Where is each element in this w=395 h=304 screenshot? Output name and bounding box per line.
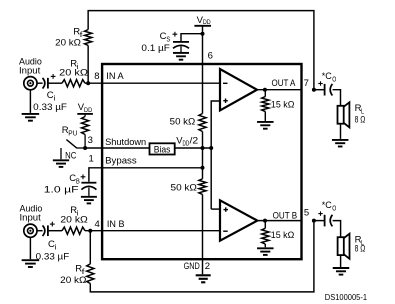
svg-text:1: 1	[89, 153, 94, 164]
speaker R_L (A)	[338, 102, 350, 127]
svg-text:15 kΩ: 15 kΩ	[271, 230, 295, 241]
label R_f (B)	[75, 264, 86, 276]
svg-text:50 kΩ: 50 kΩ	[170, 116, 196, 127]
pin 1 label	[89, 153, 94, 164]
wire op-amp A output	[257, 89, 302, 91]
svg-text:3: 3	[88, 135, 93, 146]
capacitor C_O (B) plates	[325, 215, 333, 227]
label R_L (A)	[355, 103, 364, 115]
capacitor C_i (B) plates	[43, 225, 48, 236]
label R_f (A)	[73, 26, 84, 38]
ground for speaker B	[333, 268, 350, 275]
wire R_f A to input node	[87, 45, 89, 83]
label 0.33 uF (A)	[33, 102, 67, 113]
junction OUT A / feedback	[312, 88, 316, 92]
resistor R_f (B)	[87, 264, 94, 284]
label R_L (B)	[355, 234, 364, 246]
capacitor C_S plates	[173, 42, 189, 52]
op-amp A	[220, 69, 257, 110]
label Audio Input B	[20, 204, 43, 224]
wire speaker B to ground	[340, 255, 342, 267]
wire C_i B to R_i B	[48, 230, 62, 232]
label V_DD/2	[176, 135, 198, 147]
svg-text:20 kΩ: 20 kΩ	[55, 37, 81, 48]
wire IN B node to R_f B	[89, 231, 91, 264]
svg-text:DD: DD	[183, 139, 190, 148]
label Bypass	[105, 156, 137, 167]
svg-text:7: 7	[304, 78, 309, 89]
svg-text:Input: Input	[20, 213, 42, 224]
wire OUT A to 15k A	[264, 90, 266, 97]
pin 5 label	[304, 208, 309, 219]
label OUT A	[272, 78, 296, 89]
wire +input column down to op-amp B	[210, 148, 212, 209]
IC package outline	[102, 64, 301, 259]
wire op-amp A noninverting input	[211, 101, 220, 148]
svg-text:NC: NC	[65, 150, 76, 161]
svg-text:IN A: IN A	[106, 71, 124, 82]
svg-text:IN B: IN B	[107, 219, 125, 230]
node V_DD (supply)	[194, 15, 211, 26]
label C_i (A)	[47, 90, 56, 102]
pin 6 label	[208, 51, 213, 62]
label R_i (B)	[70, 205, 79, 217]
wire V_DD rail down pin 6 to GND pin 2	[202, 26, 204, 274]
label OUT B	[273, 211, 298, 222]
ground for speaker A	[332, 140, 349, 147]
wire feedback B bottom	[90, 221, 314, 292]
wire feedback A top	[88, 11, 314, 90]
svg-text:20 kΩ: 20 kΩ	[60, 275, 86, 286]
capacitor C_i B polarity +	[50, 222, 55, 227]
capacitor C_O A polarity +	[318, 81, 322, 85]
ground for shutdown switch	[53, 160, 69, 167]
capacitor C_i (A) plates	[43, 78, 48, 89]
svg-text:5: 5	[304, 208, 309, 219]
ground for jack A	[22, 90, 40, 121]
wire jack A to C_i	[37, 82, 43, 84]
wire pin 4 to op-amp B inverting input	[102, 230, 220, 232]
label 20 kOhm R_i B	[60, 215, 87, 226]
label 15 kOhm A	[271, 100, 295, 111]
resistor R_PU	[82, 114, 89, 148]
ground for jack B	[22, 237, 40, 267]
svg-text:/2: /2	[190, 135, 199, 146]
capacitor C_O (A) plates	[325, 84, 333, 96]
switch to ground (NC)	[61, 140, 85, 160]
svg-text:OUT A: OUT A	[272, 78, 296, 89]
label R_PU	[62, 125, 78, 137]
svg-text:0.33 µF: 0.33 µF	[33, 102, 67, 113]
wire pin 1 bypass	[89, 168, 203, 182]
wire OUT B to 15k B	[264, 221, 266, 229]
svg-text:PU: PU	[68, 129, 77, 138]
svg-text:O: O	[332, 203, 336, 212]
svg-text:0.1 µF: 0.1 µF	[141, 43, 170, 54]
resistor 15k (A)	[262, 97, 269, 112]
label 8 Ohm (A)	[355, 115, 366, 126]
svg-text:OUT B: OUT B	[273, 211, 298, 222]
junction IN A node	[86, 81, 90, 85]
ground for C_S	[173, 53, 189, 60]
label 15 kOhm B	[271, 230, 295, 241]
capacitor C_S polarity +	[173, 32, 178, 37]
svg-text:8: 8	[94, 71, 99, 82]
svg-text:4: 4	[95, 219, 100, 230]
wire op-amp B output	[257, 220, 301, 222]
label *C_O (A)	[322, 71, 337, 83]
junction shutdown node	[83, 146, 87, 150]
junction op-amp A output / 15k	[263, 88, 267, 92]
wire OUT B to C_O B	[314, 220, 324, 222]
pin 2 label	[205, 261, 210, 272]
label DS100005-1	[325, 293, 368, 302]
wire R_i A to pin 8	[85, 82, 102, 84]
svg-text:Shutdown: Shutdown	[105, 137, 146, 148]
resistor 50k (lower)	[199, 179, 206, 195]
svg-text:DD: DD	[84, 107, 92, 114]
label R_i (A)	[70, 58, 79, 70]
wire speaker A to ground	[340, 124, 342, 139]
label GND	[184, 261, 200, 272]
resistor R_i (B)	[62, 227, 85, 234]
junction IN B node	[88, 229, 92, 233]
svg-text:*C: *C	[322, 71, 332, 82]
label 20 kOhm R_f A	[55, 37, 81, 48]
wire C_O A to speaker A	[333, 90, 341, 106]
audio jack A	[24, 77, 37, 90]
svg-text:20 kΩ: 20 kΩ	[60, 215, 87, 226]
wire bias node to +input column	[175, 147, 211, 149]
svg-text:*C: *C	[322, 200, 332, 211]
resistor 50k (upper)	[199, 114, 206, 132]
wire OUT A to C_O A	[314, 89, 324, 91]
ground for 15k A	[257, 122, 274, 129]
svg-text:1.0 µF: 1.0 µF	[44, 184, 79, 195]
wire pin 8 to op-amp A inverting input	[102, 82, 220, 84]
wire op-amp B noninverting input	[211, 208, 220, 210]
capacitor C_B polarity +	[81, 174, 86, 179]
label 20 kOhm R_f B	[60, 275, 86, 286]
label 8 Ohm (B)	[355, 243, 366, 254]
svg-text:O: O	[332, 74, 336, 83]
label 20 kOhm R_i A	[59, 67, 88, 78]
junction Bypass node	[201, 166, 205, 170]
label IN B	[107, 219, 125, 230]
ground for C_B	[81, 197, 97, 204]
node V_DD (pull-up)	[77, 102, 93, 114]
wire pin 3 shutdown	[85, 147, 149, 149]
svg-text:Bias: Bias	[154, 144, 171, 154]
wire C_S branch	[181, 34, 203, 41]
wire R_i B to pin 4	[85, 230, 102, 232]
label C_S	[160, 31, 171, 43]
wire 15k B to ground	[264, 244, 266, 247]
audio jack B	[24, 224, 37, 237]
speaker R_L (B)	[338, 234, 350, 259]
resistor 15k (B)	[262, 228, 269, 244]
svg-text:Bypass: Bypass	[105, 156, 137, 167]
capacitor C_O B polarity +	[318, 211, 322, 215]
label Shutdown	[105, 137, 146, 148]
svg-text:50 kΩ: 50 kΩ	[171, 183, 197, 194]
label C_i (B)	[48, 239, 57, 251]
junction op-amp B output / 15k	[263, 219, 267, 223]
svg-text:DD: DD	[203, 19, 211, 26]
resistor R_i (A)	[62, 80, 85, 87]
junction V_DD/2 node at rail	[201, 146, 205, 150]
junction OUT B / feedback	[312, 219, 316, 223]
label 0.33 uF (B)	[36, 251, 70, 262]
wire jack B to C_i	[37, 230, 43, 232]
svg-text:8 Ω: 8 Ω	[355, 115, 366, 126]
svg-text:15 kΩ: 15 kΩ	[271, 100, 295, 111]
label C_B	[69, 173, 80, 185]
svg-text:6: 6	[208, 51, 213, 62]
label NC	[65, 150, 76, 161]
pin 4 label	[95, 219, 100, 230]
svg-text:Input: Input	[19, 66, 41, 77]
svg-text:20 kΩ: 20 kΩ	[59, 67, 88, 78]
svg-text:GND: GND	[184, 261, 200, 272]
pin 3 label	[88, 135, 93, 146]
capacitor C_B plates	[81, 183, 96, 196]
label IN A	[106, 71, 124, 82]
op-amp B	[220, 200, 257, 240]
label 50 kOhm upper	[170, 116, 196, 127]
junction V_DD / C_S	[201, 32, 205, 36]
svg-text:2: 2	[205, 261, 210, 272]
pin 8 label	[94, 71, 99, 82]
resistor R_f (A)	[85, 30, 92, 46]
capacitor C_i A polarity +	[51, 74, 56, 79]
bias generator block	[150, 143, 175, 154]
label 1.0 uF	[44, 184, 79, 195]
wire C_i A to R_i A	[48, 82, 62, 84]
label *C_O (B)	[322, 200, 337, 212]
label 50 kOhm lower	[171, 183, 197, 194]
ground for 15k B	[257, 248, 274, 255]
label 0.1 uF	[141, 43, 170, 54]
label Audio Input A	[19, 57, 42, 77]
wire 15k A to ground	[264, 112, 266, 121]
wire C_O B to speaker B	[333, 221, 341, 238]
svg-text:0.33 µF: 0.33 µF	[36, 251, 70, 262]
svg-text:DS100005-1: DS100005-1	[325, 293, 368, 302]
ground for pin 2	[196, 275, 211, 282]
junction bias node / +input column	[209, 146, 213, 150]
pin 7 label	[304, 78, 309, 89]
svg-text:8 Ω: 8 Ω	[355, 243, 366, 254]
